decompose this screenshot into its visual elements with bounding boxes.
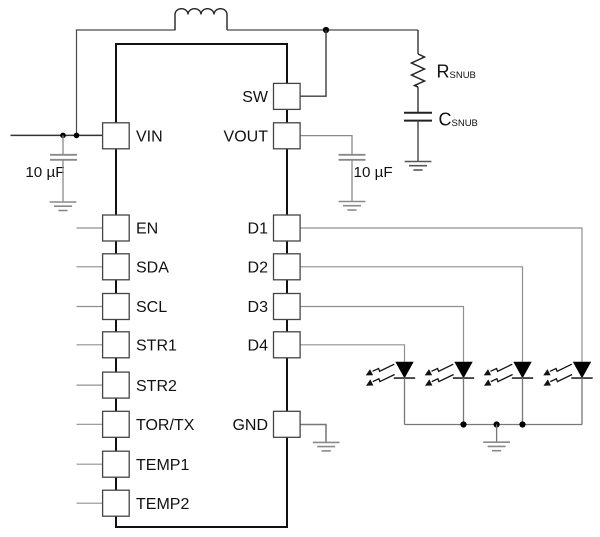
- svg-text:D4: D4: [248, 338, 269, 355]
- wire: D1 net: [300, 228, 582, 362]
- node: bus dot at ground tap: [494, 421, 500, 427]
- op-amp U1 IC body: [116, 44, 287, 527]
- wire: between resistor and capacitor: [417, 87, 419, 112]
- pin D2 box: [274, 254, 301, 280]
- wire: SW pin stub: [300, 95, 327, 97]
- wire: TEMP2 stub: [77, 502, 104, 504]
- ground: LED bus: [483, 442, 510, 451]
- pin D1 box: [274, 215, 301, 241]
- ground: GND pin: [313, 442, 340, 451]
- svg-text:D1: D1: [248, 221, 269, 238]
- wire: snubber top lead: [417, 30, 419, 54]
- ground: snubber: [405, 162, 432, 171]
- pin TEMP1 box: [103, 451, 130, 477]
- resistor RSNUB: [412, 54, 425, 87]
- pin D4 box: [274, 332, 301, 358]
- node: bus dot at D2: [519, 421, 525, 427]
- svg-text:TEMP2: TEMP2: [136, 496, 189, 513]
- capacitor CSNUB: [404, 112, 432, 114]
- wire: input cap bottom lead: [62, 160, 64, 202]
- LED D3 arrows: [425, 364, 454, 375]
- wire: D3 net: [300, 307, 464, 363]
- svg-text:SCL: SCL: [136, 299, 167, 316]
- LED D4 arrows: [366, 364, 395, 375]
- capacitor C2 10uF output: [339, 154, 366, 156]
- wire: output cap bottom lead: [351, 160, 353, 202]
- pin EN box: [103, 215, 130, 241]
- LED D4: [394, 362, 415, 378]
- wire: capacitor to ground: [417, 121, 419, 161]
- svg-text:10 µF: 10 µF: [354, 164, 393, 181]
- pin TOR/TX box: [103, 411, 130, 437]
- node: input junction dot A: [60, 133, 66, 139]
- wire: VOUT stub: [300, 136, 352, 155]
- pin STR1 box: [103, 332, 130, 358]
- svg-text:TOR/TX: TOR/TX: [136, 417, 195, 434]
- LED D2: [512, 362, 533, 378]
- pin D3 box: [274, 294, 301, 320]
- LED D2 arrows: [484, 364, 513, 375]
- svg-text:D2: D2: [248, 260, 269, 277]
- pin TEMP2 box: [103, 490, 130, 516]
- svg-text:GND: GND: [232, 417, 268, 434]
- wire: top rail left of inductor: [76, 29, 176, 31]
- wire: GND pin stub: [300, 425, 326, 443]
- node: bus dot at D3: [460, 421, 466, 427]
- pin SW box: [274, 83, 301, 109]
- wire: D4 cathode to bus: [404, 378, 406, 424]
- svg-text:10 µF: 10 µF: [25, 164, 64, 181]
- wire: TEMP1 stub: [77, 463, 104, 465]
- svg-text:SW: SW: [242, 89, 269, 106]
- wire: TOR/TX stub: [77, 423, 104, 425]
- wire: riser from VIN node up to top rail: [76, 30, 78, 136]
- wire: SDA stub: [77, 266, 104, 268]
- ground: input cap: [50, 202, 77, 211]
- svg-text:D3: D3: [248, 299, 269, 316]
- wire: input cap top lead: [62, 135, 64, 154]
- wire: input line to VIN: [11, 134, 104, 136]
- svg-text:VOUT: VOUT: [224, 129, 269, 146]
- pin VOUT box: [274, 123, 301, 149]
- node: junction dot on top rail: [323, 27, 329, 33]
- wire: D2 cathode to bus: [522, 378, 524, 424]
- inductor L1: [175, 15, 227, 31]
- wire: STR1 stub: [77, 344, 104, 346]
- wire: D2 net: [300, 267, 523, 362]
- LED D3: [453, 362, 474, 378]
- wire: top rail right of inductor to snubber: [227, 29, 418, 31]
- pin GND box: [274, 411, 301, 437]
- svg-text:RSNUB: RSNUB: [437, 62, 476, 82]
- wire: SCL stub: [77, 306, 104, 308]
- wire: EN stub: [77, 227, 104, 229]
- node: input junction dot B: [74, 133, 80, 139]
- wire: D3 cathode to bus: [463, 378, 465, 424]
- svg-text:STR1: STR1: [136, 338, 177, 355]
- wire: bus ground lead: [496, 425, 498, 443]
- pin SDA box: [103, 254, 130, 280]
- svg-text:VIN: VIN: [136, 129, 163, 146]
- svg-text:CSNUB: CSNUB: [439, 110, 478, 130]
- pin VIN box: [103, 123, 130, 149]
- wire: D4 net: [300, 345, 405, 362]
- wire: LED cathode bus: [405, 424, 583, 426]
- wire: from top rail down to SW stub: [325, 30, 327, 96]
- svg-text:EN: EN: [136, 221, 158, 238]
- LED D1: [571, 362, 592, 378]
- wire: D1 cathode to bus: [581, 378, 583, 424]
- svg-text:TEMP1: TEMP1: [136, 457, 189, 474]
- pin SCL box: [103, 294, 130, 320]
- ground: output cap: [339, 202, 366, 211]
- svg-text:SDA: SDA: [136, 260, 169, 277]
- svg-text:STR2: STR2: [136, 378, 177, 395]
- LED D1 arrows: [543, 364, 572, 375]
- pin STR2 box: [103, 372, 130, 398]
- wire: STR2 stub: [77, 384, 104, 386]
- capacitor C1 10uF input: [50, 154, 77, 156]
